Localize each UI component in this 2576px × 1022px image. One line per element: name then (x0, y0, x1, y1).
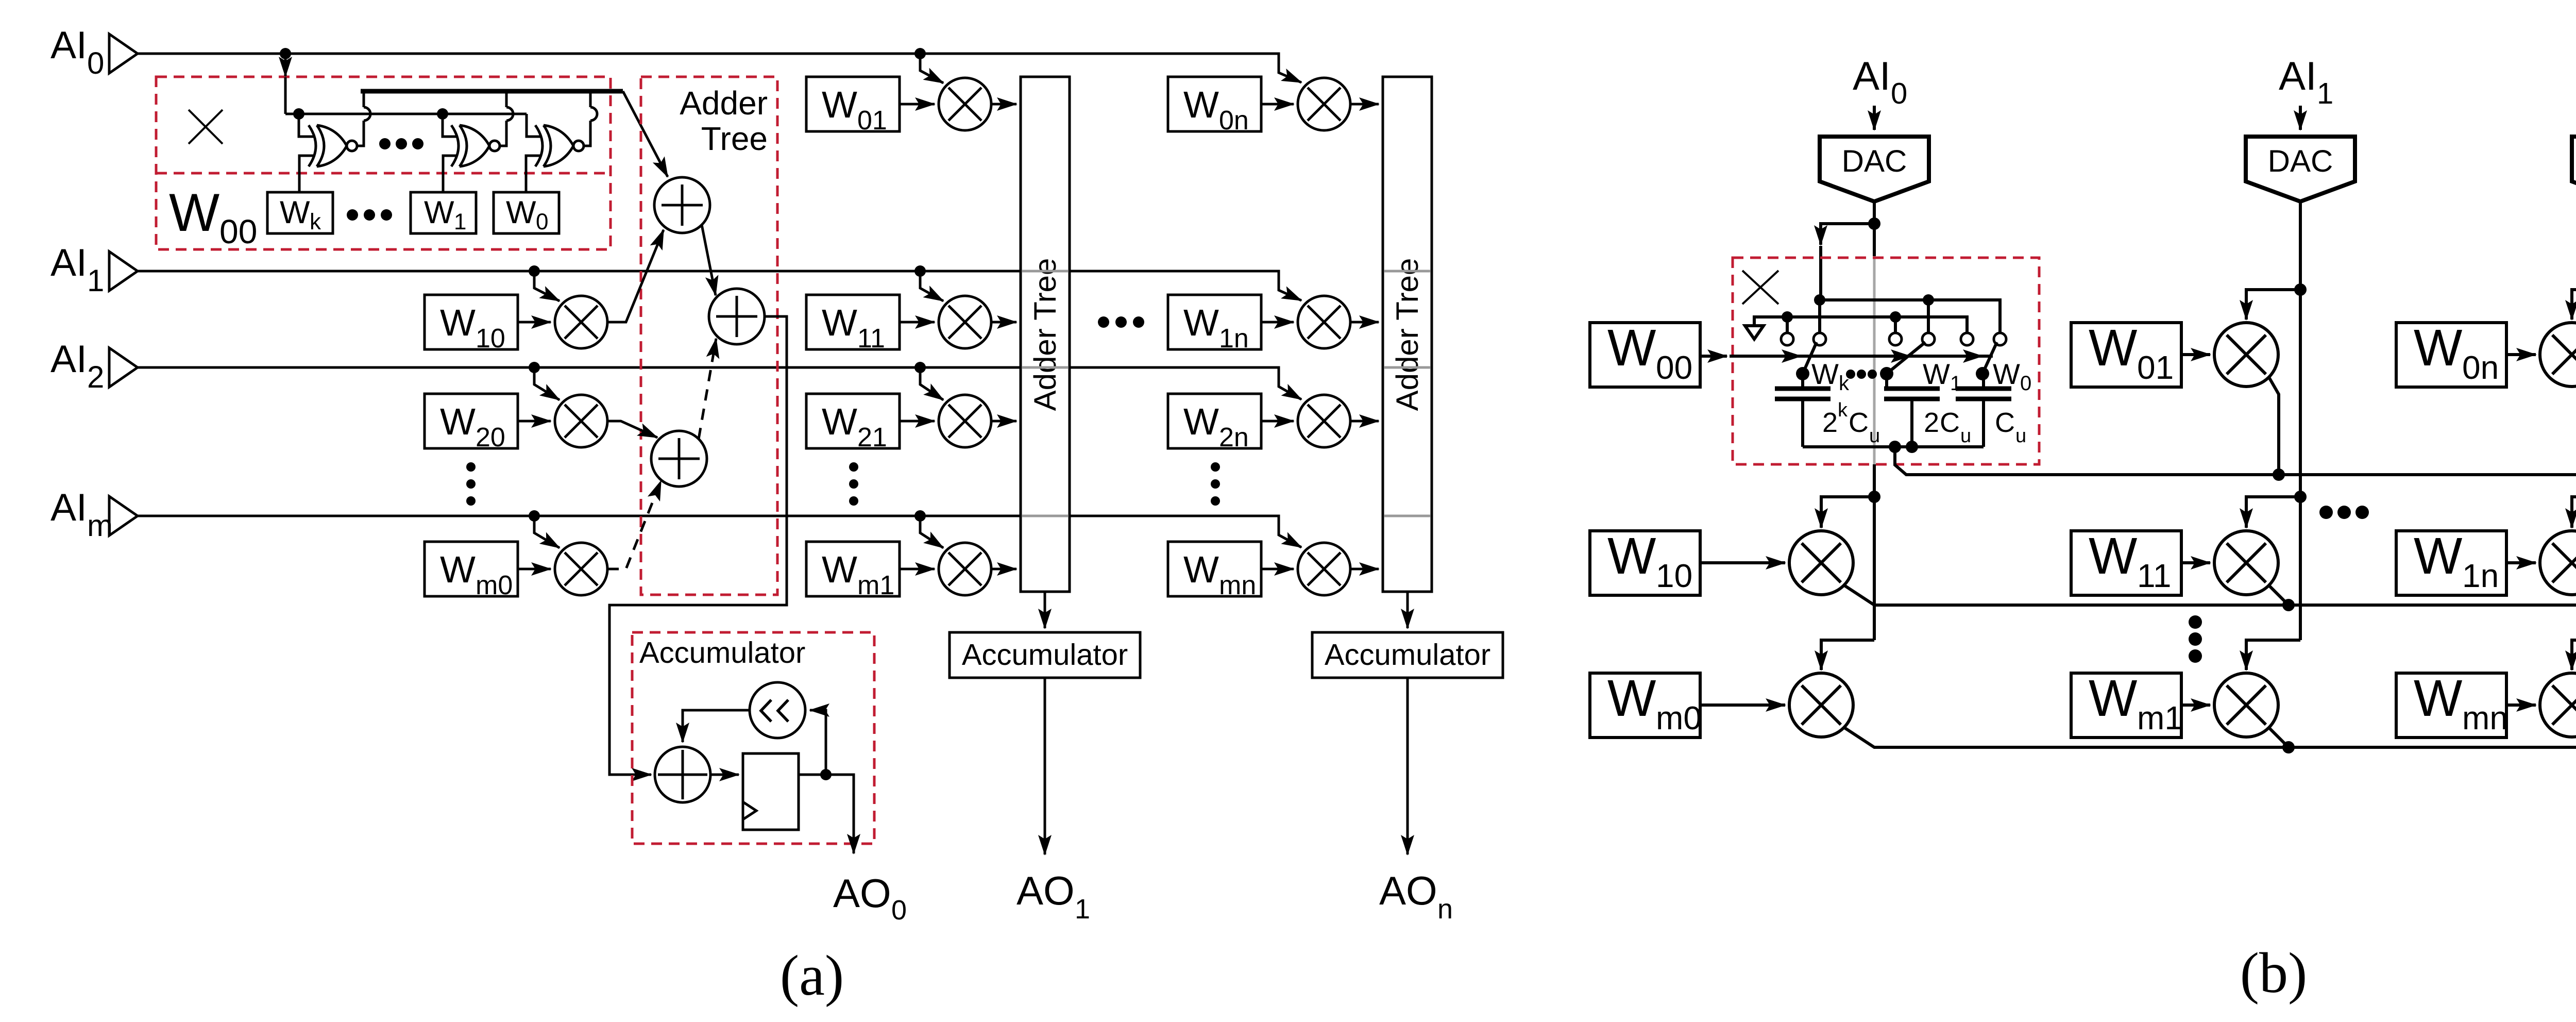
value label 2Cu (1924, 407, 1971, 447)
ground bus (1754, 317, 1967, 333)
gray wire DAC0 column through cell (1873, 256, 1876, 464)
panel label (a) (780, 944, 844, 1008)
dashed box capacitor cell (1733, 258, 2039, 464)
wire DAC column 1 (2299, 202, 2302, 640)
wire mult10 to adder A1 (607, 230, 664, 322)
svg-text:u: u (2015, 425, 2026, 447)
adder tree bar bar2 (1383, 77, 1432, 592)
svg-text:AO: AO (1379, 868, 1437, 913)
svg-text:00: 00 (1656, 349, 1692, 386)
svg-text:n: n (1437, 894, 1453, 925)
DAC 0 (1820, 137, 1929, 202)
junction dot AI tap col0 row20 (529, 362, 540, 373)
capacitor 2Cu (1884, 374, 1940, 447)
junction dot rowm col1 (2282, 741, 2295, 753)
wire W11 to multiplier (900, 321, 935, 324)
wire Wm0 to multiplier (518, 568, 551, 571)
svg-text:11: 11 (2137, 557, 2171, 594)
weight distribution line (1730, 355, 1993, 358)
wire DAC0 column below cell (1873, 464, 1876, 640)
ground symbol (1745, 326, 1764, 339)
svg-text:W: W (440, 401, 476, 443)
ellipsis dots panel b row0 (2319, 506, 2369, 519)
register box Wk (267, 192, 333, 234)
ellipsis dots between registers (347, 209, 392, 221)
junction dot column 1 row1 (2294, 491, 2307, 503)
wire column 1 branch row1 (2246, 497, 2300, 528)
wire Wm1 to multiplier (900, 568, 935, 571)
svg-text:k: k (1838, 399, 1848, 421)
adder tree bar bar1 (1021, 77, 1070, 592)
wire AI tap col0 rowm0 (534, 516, 560, 548)
adder A3 (651, 431, 707, 487)
wire column n branch row1 (2572, 497, 2576, 528)
weight box Wm1 panel b (2071, 669, 2183, 738)
wire mult W10 output (1843, 584, 2576, 605)
multiplier W11 (939, 296, 991, 348)
multiplier Wmn (1298, 543, 1350, 595)
vertical ellipsis col1 (849, 462, 858, 506)
wire DAC0 output (1873, 202, 1876, 256)
wire multiplier W21 output (991, 420, 1016, 423)
svg-text:0n: 0n (1219, 106, 1249, 136)
junction dot AI tap col1 rowm (914, 510, 926, 522)
dashed box Accumulator cell (632, 632, 874, 844)
switch label W0 (1993, 358, 2031, 395)
wire multiplier W0n output (1350, 103, 1379, 106)
wire mult Wm0 output (1843, 727, 2576, 747)
wire ground bus to switch 1 (1786, 317, 1789, 333)
label Adder Tree (680, 85, 768, 157)
wire DAC0 branch row1 (1821, 497, 1874, 528)
svg-text:W: W (506, 195, 536, 230)
wire W1n to multiplier (2506, 561, 2536, 564)
weight box Wm0 panel b (1590, 669, 1702, 738)
svg-text:u: u (1869, 425, 1880, 447)
svg-text:m1: m1 (857, 571, 894, 600)
wire AI row y=713 (138, 367, 1301, 399)
wire multiplier W01 output (991, 103, 1016, 106)
junction dot AI tap col1 row1 (914, 265, 926, 277)
weight box Wm1 (806, 542, 900, 600)
svg-text:0n: 0n (2462, 349, 2499, 386)
input label AI0 panel b (1853, 53, 1907, 110)
weight box W1n (1168, 295, 1261, 354)
weight box W10 panel b (1590, 527, 1700, 595)
svg-text:AO: AO (833, 870, 891, 916)
weight box Wmn (1168, 542, 1261, 600)
wire W10 to multiplier (1700, 561, 1785, 564)
junction dot bus A left (1814, 294, 1825, 306)
input buffer AI1 (109, 252, 138, 291)
svg-text:W: W (1607, 527, 1656, 585)
svg-text:k: k (310, 209, 321, 234)
svg-text:1: 1 (87, 263, 104, 298)
value label Cu (1995, 407, 2026, 447)
adder A2 (709, 289, 765, 344)
multiplier Wm0 panel b (1789, 673, 1853, 737)
switch arm Wk (1796, 342, 1817, 380)
wire register output to AO0 (799, 775, 854, 853)
wire mult20 to adder A3 (607, 421, 657, 438)
vertical ellipsis coln (1211, 462, 1220, 506)
svg-text:W: W (440, 549, 476, 591)
svg-text:Adder Tree: Adder Tree (1028, 258, 1062, 411)
wire Wmn to multiplier (2506, 703, 2536, 707)
svg-text:m0: m0 (476, 571, 513, 600)
wire bus to adder A1 (623, 91, 668, 177)
svg-text:AI: AI (50, 485, 87, 529)
svg-text:m0: m0 (1656, 699, 1702, 736)
svg-text:W: W (424, 195, 454, 230)
multiply symbol capacitor cell (1742, 271, 1778, 304)
weight box Wm0 (425, 542, 518, 600)
wire AI tap col1 row2 (920, 367, 943, 400)
XNOR gate G2 (443, 91, 513, 192)
svg-text:2: 2 (1822, 407, 1838, 438)
svg-text:2n: 2n (1219, 423, 1249, 453)
input label AI1 (50, 241, 104, 298)
junction dot AI tap col1 row2 (914, 362, 926, 373)
wire adder A2 to accumulator (609, 316, 787, 775)
junction dot bus A mid (1923, 294, 1934, 306)
svg-text:AO: AO (1016, 868, 1075, 913)
svg-text:W: W (822, 401, 857, 443)
wire column 1 branch row0 (2246, 290, 2300, 320)
wire AI tap col1 rowm (920, 516, 943, 548)
wire column 1 branch rowm (2246, 640, 2300, 670)
wire AI tap col1 row0 (920, 54, 943, 83)
adder A1 (654, 177, 710, 233)
svg-text:W: W (440, 302, 476, 344)
wire mult rowm col1 output (2269, 728, 2289, 747)
svg-text:W: W (1183, 401, 1219, 443)
svg-text:W: W (1183, 302, 1219, 344)
capacitor bottom bus (1803, 445, 1984, 448)
svg-text:W: W (1811, 358, 1839, 390)
svg-text:10: 10 (1656, 557, 1692, 594)
svg-text:Accumulator: Accumulator (962, 638, 1128, 672)
svg-text:Accumulator: Accumulator (639, 636, 805, 669)
svg-text:AI: AI (50, 337, 87, 380)
wire W21 to multiplier (900, 420, 935, 423)
wire Wm1 to multiplier (2181, 703, 2210, 707)
svg-text:Adder: Adder (680, 85, 768, 122)
adder in accumulator cell (655, 747, 710, 802)
register box W0 (494, 192, 559, 234)
junction dot DAC0 column row1 (1868, 491, 1880, 503)
wire W2n to multiplier (1261, 420, 1294, 423)
svg-text:W: W (822, 302, 857, 344)
wire AI tap col1 row1 (920, 271, 943, 301)
switch arm W0 (1976, 342, 1997, 380)
accumulator box n (1312, 632, 1503, 678)
dashed divider inside W00 cell (156, 172, 611, 175)
svg-text:(b): (b) (2240, 941, 2308, 1005)
switch label Wk (1811, 358, 1850, 395)
svg-text:01: 01 (857, 106, 887, 136)
panel label (b) (2240, 941, 2308, 1005)
junction dot AI tap col0 rowm0 (529, 510, 540, 522)
svg-text:C: C (1940, 407, 1960, 438)
wire cell output to row0 line (1895, 447, 2576, 475)
svg-text:(a): (a) (780, 944, 844, 1008)
multiplier W1n (1298, 296, 1350, 348)
output label AO0 (833, 870, 907, 926)
wire AI row y=1001 (138, 516, 1301, 547)
junction node gate1 input (293, 108, 304, 120)
wire mult row1 col1 output (2269, 585, 2289, 605)
wire DAC0 branch into cell (1821, 224, 1874, 300)
ellipsis dots capacitor cell (1846, 370, 1877, 379)
svg-text:C: C (1849, 407, 1869, 438)
svg-text:AI: AI (50, 23, 87, 66)
weight box W01 panel b (2071, 319, 2181, 387)
multiplier W21 (939, 395, 991, 447)
wire W20 to multiplier (518, 420, 551, 423)
wire W00 to capacitor cell (1700, 355, 1727, 358)
svg-text:DAC: DAC (1842, 144, 1907, 178)
wire W01 to multiplier (2181, 353, 2210, 356)
wire DAC0 branch rowm (1821, 640, 1874, 670)
weight box W00 panel b (1590, 319, 1700, 387)
svg-text:AI: AI (50, 241, 87, 284)
multiplier Wmn panel b (2540, 673, 2576, 737)
wire AI tap col0 row10 (534, 271, 560, 301)
wire column n branch row0 (2572, 290, 2576, 320)
svg-text:W: W (2414, 319, 2463, 377)
register in accumulator cell (743, 753, 799, 830)
wire multiplier Wmn output (1350, 568, 1379, 571)
svg-text:W: W (1607, 319, 1656, 377)
wire AI0 to DAC (1873, 106, 1876, 130)
gray wire overlays bar1 (1022, 271, 1068, 516)
wire accumulator 1 to AO1 (1044, 678, 1046, 855)
junction dot DAC0 split (1868, 217, 1880, 230)
output label AOn (1379, 868, 1453, 925)
vertical ellipsis col0 (466, 462, 476, 506)
wire ground bus to switch 2 (1894, 317, 1897, 333)
multiplier W01 (939, 78, 991, 130)
vertical ellipsis panel b (2189, 615, 2202, 663)
ellipsis dots row1 between columns (1098, 316, 1144, 328)
label W00 (169, 183, 257, 250)
svg-text:Accumulator: Accumulator (1325, 638, 1490, 672)
svg-text:AI: AI (1853, 53, 1891, 98)
XNOR gate G1 (299, 91, 370, 192)
wire bus A to switch 2 (1927, 300, 1930, 333)
multiplier W01 panel b (2214, 323, 2278, 387)
wire column n branch rowm (2572, 640, 2576, 670)
multiplier W2n (1298, 395, 1350, 447)
wire AI1 to DAC (2299, 106, 2302, 130)
svg-text:Tree: Tree (701, 120, 768, 157)
weight box W20 (425, 394, 518, 453)
switch arm W1 (1880, 342, 1925, 380)
svg-text:20: 20 (476, 423, 505, 453)
weight box W11 (806, 295, 900, 354)
wire Wm0 to multiplier (1700, 703, 1785, 707)
svg-text:DAC: DAC (2268, 144, 2333, 178)
svg-text:W: W (1607, 669, 1656, 727)
wire gate3 output (583, 91, 597, 146)
svg-text:m1: m1 (2137, 699, 2183, 736)
svg-text:W: W (822, 84, 857, 126)
wire mult row0 col1 output (2269, 377, 2279, 475)
multiplier col0 row10 (555, 296, 607, 348)
capacitor Cu (1956, 374, 2011, 447)
svg-text:W: W (822, 549, 857, 591)
svg-text:0: 0 (891, 895, 907, 926)
weight box W11 panel b (2071, 527, 2181, 595)
svg-text:01: 01 (2137, 349, 2174, 386)
wire W01 to multiplier (900, 103, 935, 106)
svg-text:1: 1 (1075, 894, 1090, 925)
svg-text:0: 0 (1891, 77, 1907, 110)
wire Wmn to multiplier (1261, 568, 1294, 571)
weight box W2n (1168, 394, 1261, 453)
svg-text:Adder Tree: Adder Tree (1390, 258, 1425, 411)
junction node gate2 input (437, 108, 448, 120)
label Adder Tree bar2 (1390, 258, 1425, 411)
junction dot row0 col1 (2273, 468, 2285, 481)
junction dot AI tap col0 row10 (529, 265, 540, 277)
svg-text:11: 11 (857, 324, 885, 354)
input label AI0 (50, 23, 104, 80)
wire adder A1 to adder A2 (702, 225, 716, 295)
svg-text:0: 0 (87, 46, 104, 80)
weight box W0n panel b (2396, 319, 2506, 387)
multiplier W0n (1298, 78, 1350, 130)
DAC m (2572, 137, 2576, 202)
svg-text:10: 10 (476, 324, 505, 354)
svg-text:1: 1 (1950, 372, 1961, 395)
svg-text:21: 21 (857, 423, 887, 453)
wire feedback to shift-left (810, 710, 826, 775)
multiplier W11 panel b (2214, 531, 2278, 595)
svg-text:W: W (280, 195, 310, 230)
dashed box Adder Tree (641, 77, 777, 595)
wire bar to accumulator 1 (1044, 592, 1046, 628)
multiplier Wm1 (939, 543, 991, 595)
svg-text:W: W (2089, 527, 2138, 585)
switch label W1 (1923, 358, 1961, 395)
shift-left circle (750, 682, 805, 738)
dashed wire multm0 to adder A3 (607, 481, 661, 569)
input buffer AIm (109, 496, 138, 535)
svg-text:W: W (1993, 358, 2020, 390)
wire AI tap col0 row20 (534, 367, 560, 400)
svg-text:W: W (1183, 84, 1219, 126)
svg-text:W: W (2414, 527, 2463, 585)
svg-text:C: C (1995, 407, 2015, 438)
svg-text:W: W (2089, 669, 2138, 727)
svg-text:0: 0 (2020, 372, 2031, 395)
capacitor 2kCu (1775, 374, 1831, 447)
XNOR gate G3 (535, 125, 584, 166)
svg-text:mn: mn (1219, 571, 1256, 600)
input buffer AI2 (109, 348, 138, 387)
switch contacts (1781, 333, 2006, 345)
weight box W1n panel b (2396, 527, 2506, 595)
input label AIm (50, 485, 113, 543)
wire shift-left to adder (683, 710, 750, 742)
junction dot column 1 row0 (2294, 283, 2307, 296)
input label AI2 (50, 337, 104, 394)
junction dot ground bus 1 (1782, 311, 1793, 323)
wire AI0 tap into W00 cell (285, 54, 527, 114)
input label AI1 panel b (2279, 53, 2333, 110)
wire multiplier W2n output (1350, 420, 1379, 423)
wire accumulator n to AOn (1406, 678, 1409, 855)
svg-text:1: 1 (2317, 77, 2333, 110)
svg-text:W: W (2414, 669, 2463, 727)
svg-text:W: W (169, 183, 219, 243)
wire W0n to multiplier (1261, 103, 1294, 106)
wire W1n to multiplier (1261, 321, 1294, 324)
weight box W21 (806, 394, 900, 453)
wire W0n to multiplier (2506, 353, 2536, 356)
svg-text:u: u (1960, 425, 1971, 447)
svg-text:mn: mn (2462, 699, 2508, 736)
label Adder Tree bar1 (1028, 258, 1062, 411)
svg-text:0: 0 (536, 209, 548, 234)
svg-text:1n: 1n (2462, 557, 2499, 594)
svg-text:AI: AI (2279, 53, 2317, 98)
svg-text:2: 2 (1924, 407, 1939, 438)
switch bus from DAC (1820, 300, 2000, 333)
accumulator box 1 (950, 632, 1140, 678)
multiplier col0 row20 (555, 395, 607, 447)
output label AO1 (1016, 868, 1090, 925)
gray wire overlays bar2 (1384, 271, 1430, 516)
wire AI row y=104 (138, 54, 1301, 82)
multiplier Wm1 panel b (2214, 673, 2278, 737)
junction dot bottom bus cap2 (1906, 441, 1918, 453)
weight box W01 (806, 77, 900, 136)
weight box W0n (1168, 77, 1261, 136)
svg-text:W: W (1183, 549, 1219, 591)
wire W10 to multiplier (518, 321, 551, 324)
junction dot ground bus 2 (1890, 311, 1901, 323)
wire adder to register (710, 774, 739, 776)
multiplier W1n panel b (2540, 531, 2576, 595)
svg-text:W: W (2089, 319, 2138, 377)
svg-text:00: 00 (219, 212, 257, 250)
XNOR output bus (361, 89, 623, 94)
multiplier W10 panel b (1789, 531, 1853, 595)
weight box Wmn panel b (2396, 669, 2508, 738)
wire gate3 inputs (526, 114, 541, 192)
junction dot AI tap col1 row0 (914, 48, 926, 59)
dashed box W00 bit-serial cell (156, 77, 611, 249)
wire bus A to switch 1 (1818, 300, 1821, 333)
wire multiplier W11 output (991, 321, 1016, 324)
junction dot bottom bus out (1889, 441, 1901, 453)
ellipsis dots between gates (379, 138, 423, 149)
value label 2kCu (1822, 399, 1880, 447)
wire AI row y=526 (138, 271, 1301, 300)
junction dot AI0 tap (280, 48, 291, 59)
svg-text:2: 2 (87, 360, 104, 394)
svg-text:1: 1 (454, 209, 466, 234)
weight box W10 (425, 295, 518, 354)
junction dot register output (820, 769, 832, 780)
wire multiplier Wm1 output (991, 568, 1016, 571)
dashed wire adder A3 to adder A2 (699, 339, 716, 439)
input buffer AI0 (109, 34, 138, 73)
multiplier W0n panel b (2540, 323, 2576, 387)
